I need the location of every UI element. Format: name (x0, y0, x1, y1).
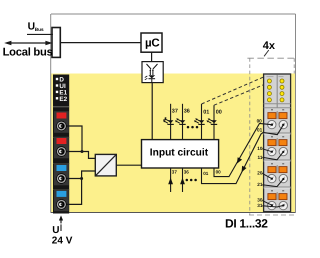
svg-text:00: 00 (216, 170, 222, 175)
svg-text:36: 36 (184, 108, 190, 114)
svg-text:E2: E2 (59, 96, 67, 103)
svg-text:4x: 4x (263, 40, 276, 52)
svg-text:00: 00 (257, 118, 263, 123)
svg-text:20: 20 (257, 171, 263, 176)
svg-text:01: 01 (257, 127, 263, 132)
svg-text:01: 01 (203, 109, 209, 115)
svg-text:µC: µC (145, 37, 159, 49)
svg-text:37: 37 (172, 169, 178, 174)
svg-text:36: 36 (184, 169, 190, 174)
svg-text:00: 00 (216, 109, 222, 115)
svg-text:11: 11 (258, 155, 263, 160)
svg-text:10: 10 (257, 146, 263, 151)
svg-text:Bus: Bus (35, 27, 44, 32)
svg-text:30: 30 (257, 198, 263, 203)
svg-text:Input circuit: Input circuit (150, 147, 209, 158)
svg-text:01: 01 (203, 171, 209, 176)
svg-text:37: 37 (172, 108, 178, 114)
svg-text:31: 31 (257, 203, 263, 208)
svg-text:DI 1...32: DI 1...32 (225, 216, 268, 230)
svg-text:Local bus: Local bus (3, 46, 53, 58)
svg-text:24 V: 24 V (52, 235, 73, 246)
svg-text:21: 21 (257, 182, 263, 187)
svg-text:U: U (52, 225, 59, 236)
